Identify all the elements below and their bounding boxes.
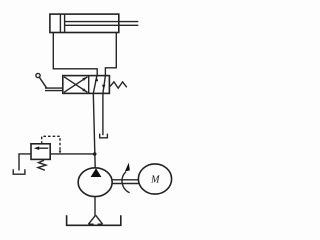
cylinder body bbox=[50, 14, 119, 32]
valve right position flow line B-T with down arrow bbox=[103, 76, 106, 94]
suction strainer bbox=[88, 215, 102, 224]
svg-text:M: M bbox=[150, 174, 160, 185]
wire T: valve bottom-right down to drain tank bbox=[102, 93, 104, 135]
main tank bbox=[67, 215, 121, 225]
lever mount double line bbox=[45, 88, 63, 91]
valve divider bbox=[88, 76, 90, 94]
motor M1 circle bbox=[138, 164, 171, 194]
relief valve V1 body bbox=[31, 144, 50, 160]
X arrowhead upper-right bbox=[82, 77, 87, 81]
relief drain tank bbox=[13, 169, 25, 174]
relief valve pilot line (dashed) bbox=[42, 136, 60, 152]
pump P1 circle bbox=[78, 168, 112, 197]
valve return spring bbox=[110, 82, 127, 88]
pump flow triangle (filled, pointing up) bbox=[91, 168, 102, 177]
X arrowhead lower-right bbox=[82, 88, 87, 92]
relief valve spring bbox=[38, 160, 46, 170]
relief valve arrow (points left) bbox=[36, 147, 48, 149]
pilot arrowhead bbox=[59, 151, 62, 154]
valve right position flow line A-P with up arrow bbox=[93, 76, 97, 94]
rotation arrow arc bbox=[122, 172, 130, 193]
wire B: cylinder right port to valve top-right bbox=[105, 33, 116, 76]
relief valve outlet wire to tank bbox=[19, 154, 31, 171]
lever knob bbox=[36, 73, 40, 77]
valve left position crossed arrows X bbox=[64, 77, 88, 93]
wire relief branch bbox=[50, 153, 94, 155]
lever arm bbox=[39, 77, 47, 88]
pump suction line bbox=[94, 197, 96, 216]
drive shaft (double line) bbox=[112, 180, 138, 184]
wire A: cylinder left port to valve top-left bbox=[53, 33, 97, 76]
drain tank (T port) bbox=[100, 134, 108, 138]
piston rod (double line) bbox=[65, 22, 139, 26]
piston (double line) bbox=[60, 14, 64, 32]
rotation arrowhead bbox=[125, 163, 130, 172]
wire P: valve bottom-left to pump outlet bbox=[93, 93, 95, 167]
junction dot bbox=[93, 152, 97, 156]
valve DV1 body (2-position) bbox=[63, 76, 110, 94]
